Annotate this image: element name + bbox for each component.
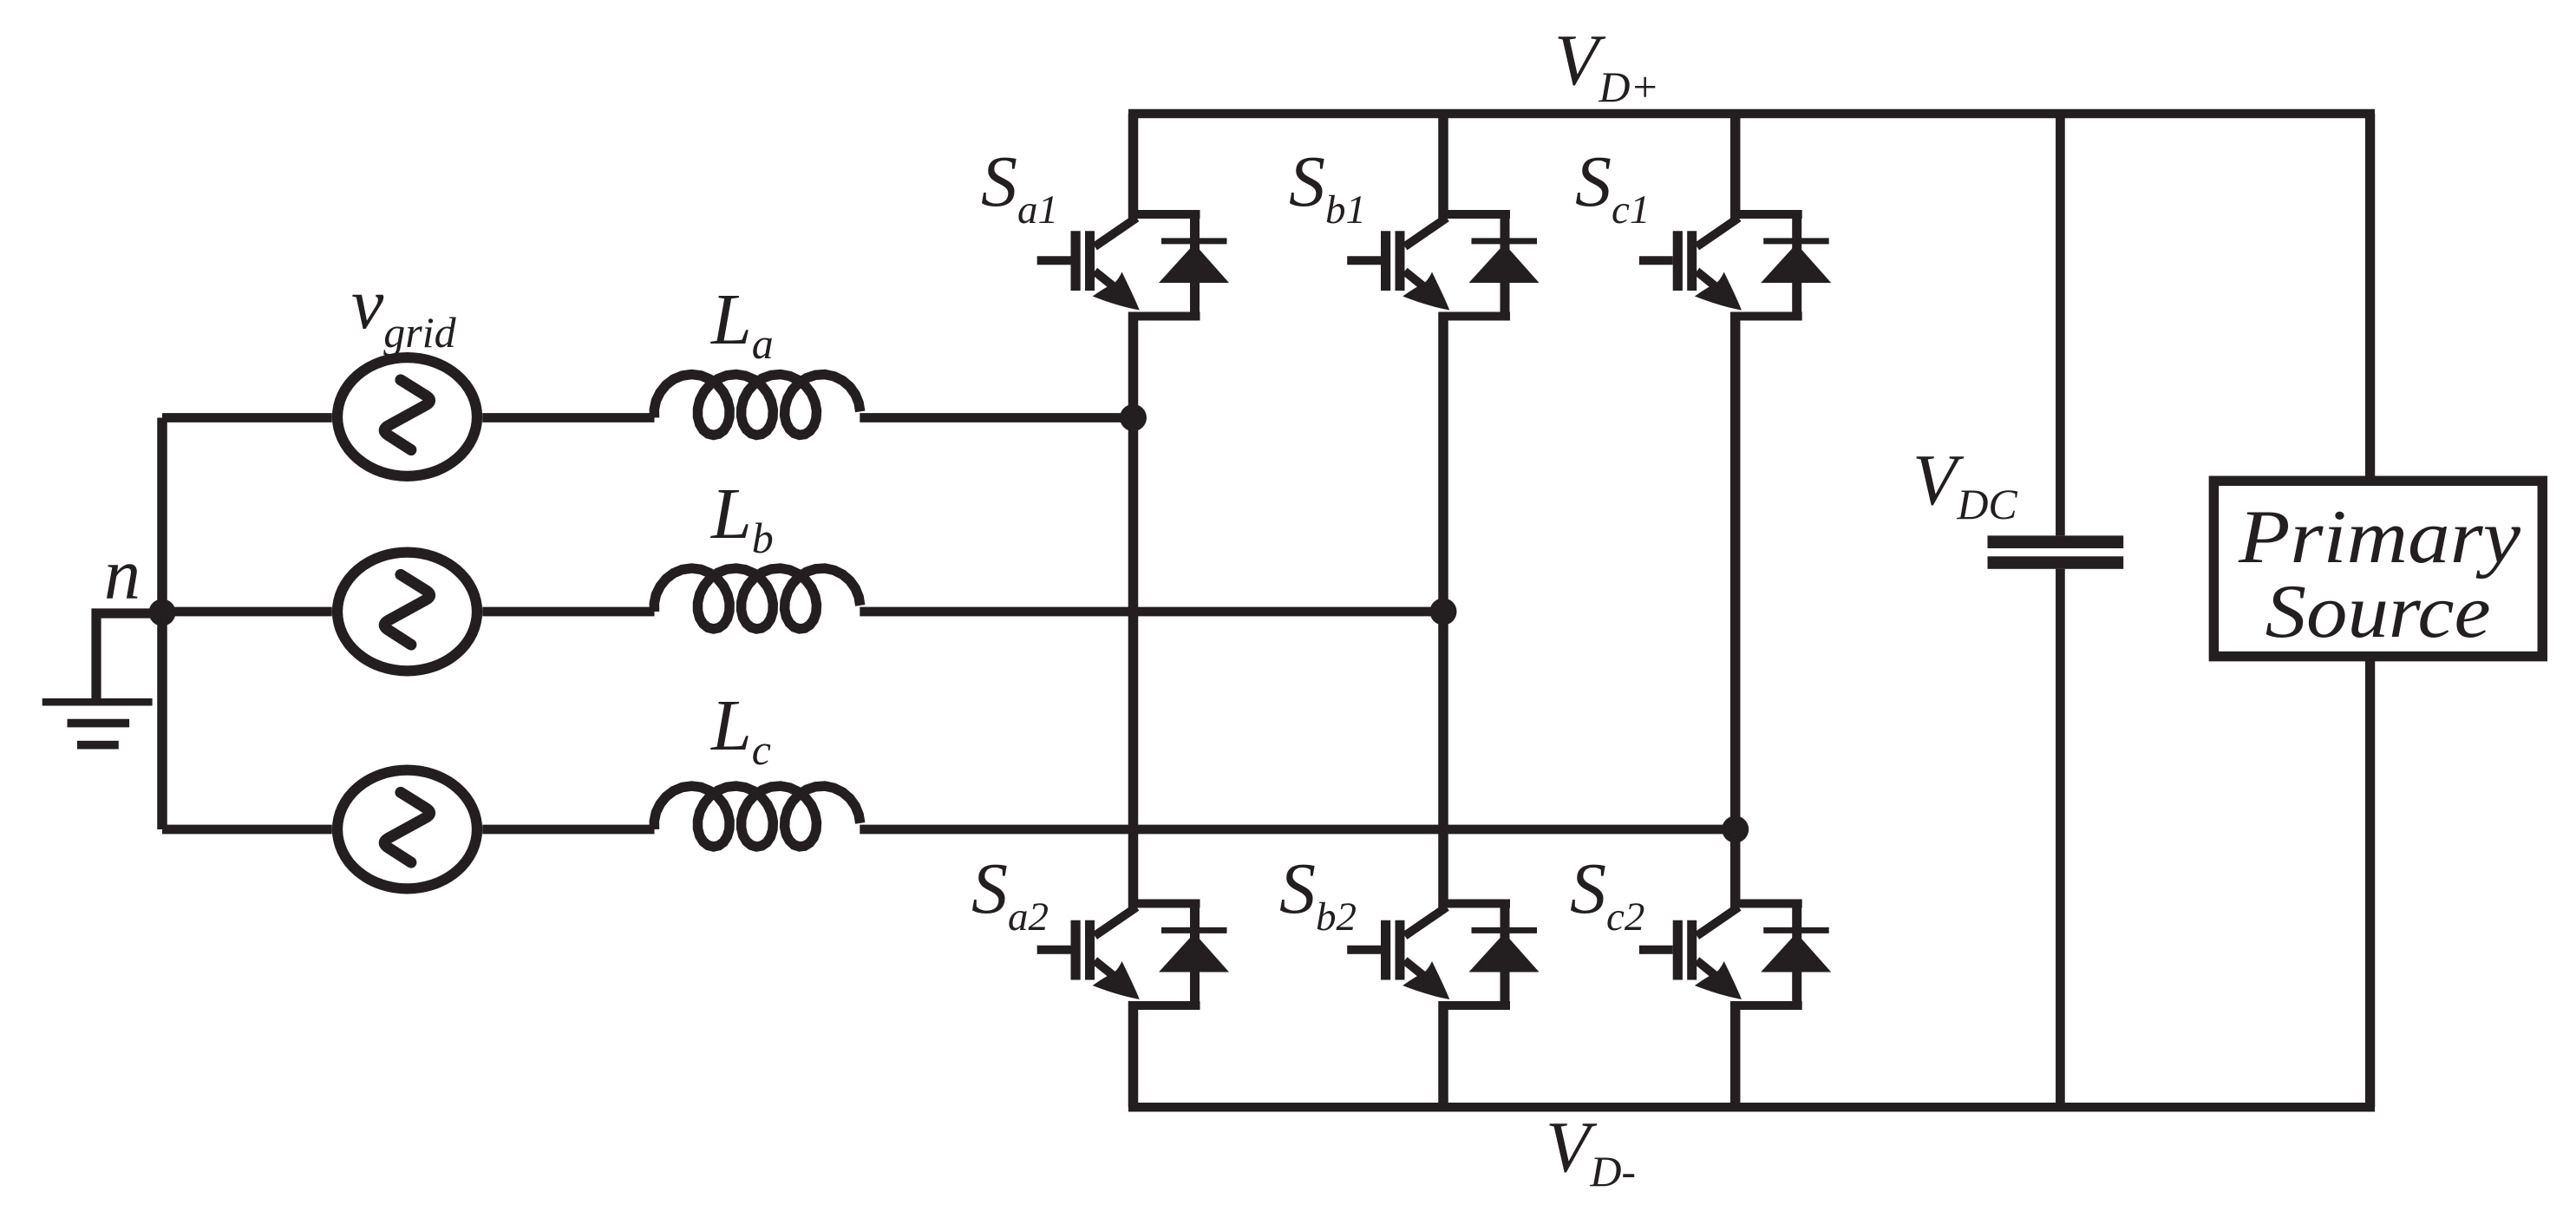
primary source box [2213, 481, 2542, 656]
wire: phase b row [162, 607, 1443, 617]
transistor S_a1 (IGBT with diode) [1037, 214, 1229, 317]
svg-text:n: n [104, 534, 141, 615]
transistor S_b2 [1347, 904, 1539, 1006]
transistor S_b1 [1347, 214, 1539, 317]
AC source phase c [337, 770, 477, 889]
wire: phase c row [162, 825, 1736, 835]
wire: capacitor branch bottom [2056, 569, 2065, 1107]
ground [42, 613, 162, 745]
transistor S_c1 [1639, 214, 1831, 317]
AC source phase a (v_grid) [337, 357, 477, 476]
node phase a junction dot [1120, 404, 1147, 431]
node n junction dot [149, 599, 176, 626]
wire: phase a row (source to inductor to leg a) [162, 413, 1134, 422]
capacitor C (V_DC) top plate [1988, 535, 2124, 548]
capacitor C (V_DC) bottom plate [1988, 556, 2124, 569]
inductor Lc [654, 786, 860, 847]
inductor Lb [654, 568, 860, 629]
wire: right rail top (bus to primary source) [2365, 114, 2375, 476]
AC source phase b [337, 553, 477, 671]
node phase b junction dot [1430, 599, 1457, 625]
transistor S_c2 [1639, 904, 1831, 1006]
node phase c junction dot [1722, 816, 1749, 843]
inductor La [654, 375, 860, 436]
wire: capacitor branch top [2056, 114, 2065, 535]
wire: leg b vertical segments [1438, 114, 1448, 1107]
svg-text:Primary: Primary [2238, 495, 2521, 580]
wire: top DC bus V_D+ rail [1128, 109, 2375, 119]
wire: right rail bottom (primary source to bus) [2365, 661, 2375, 1107]
wire: bottom DC bus V_D- rail [1128, 1103, 2375, 1112]
wire: left neutral rail [157, 418, 167, 830]
wire: leg c vertical segments [1730, 114, 1741, 1107]
transistor S_a2 [1037, 904, 1229, 1006]
svg-text:Source: Source [2265, 570, 2491, 654]
wire: leg a vertical segments [1128, 114, 1139, 1107]
